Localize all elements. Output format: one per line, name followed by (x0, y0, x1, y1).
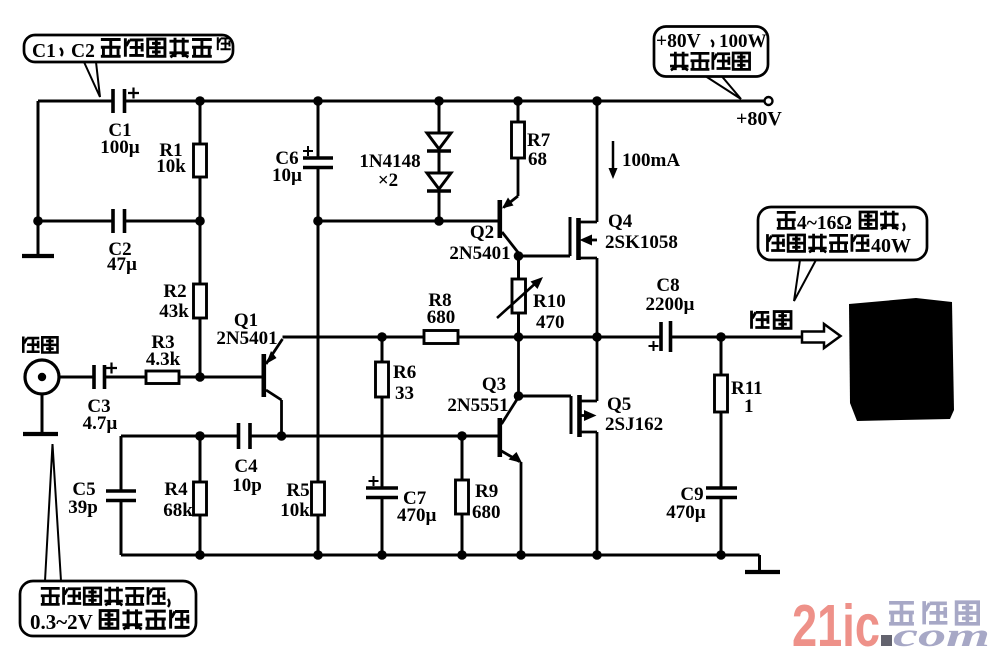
transistor Q2 2N5401 (PNP) (449, 158, 518, 264)
svg-text:68k: 68k (163, 500, 193, 521)
wire left supply branch (37, 101, 40, 221)
junction output node / R11 (716, 332, 726, 342)
ground (supply filter, left) (22, 221, 54, 256)
svg-text:470µ: 470µ (666, 502, 706, 523)
svg-text:C4: C4 (234, 456, 258, 477)
resistor R8 680 (424, 290, 458, 344)
junction ground rail / Q5 drain (592, 550, 602, 560)
wire C2 row right (125, 220, 201, 223)
diodes D1 D2 1N4148 x2 (359, 101, 451, 221)
svg-text:100µ: 100µ (100, 137, 140, 158)
svg-text:R6: R6 (393, 362, 416, 383)
wire base node to Q1 base (200, 376, 262, 379)
resistor R7 68 (512, 101, 551, 170)
annotation 输出 (output) (752, 311, 791, 329)
transistor Q3 2N5551 (NPN) (447, 337, 522, 555)
junction output rail / Q4 source (592, 332, 602, 342)
callout pointer (speaker note) (794, 260, 816, 301)
wire C8 to output node / arrow (671, 336, 803, 339)
resistor R9 680 (456, 436, 501, 555)
current annotation 100mA (609, 141, 681, 179)
capacitor C9 470µ (666, 484, 737, 555)
svg-text:0.3~2V: 0.3~2V (30, 610, 93, 634)
svg-text:10p: 10p (232, 475, 262, 496)
MOSFET Q4 2SK1058 (N-channel) (570, 101, 678, 337)
junction C6 / bias rail (313, 216, 323, 226)
callout pointer (C1 C2 note) (84, 62, 100, 97)
junction Q1 collector / mid rail (277, 431, 287, 441)
svg-text:×2: ×2 (378, 170, 398, 191)
svg-text:33: 33 (395, 383, 414, 404)
svg-text:+80V: +80V (736, 108, 782, 130)
svg-text:470µ: 470µ (397, 505, 437, 526)
callout note: +80V 100W power supply (654, 27, 768, 77)
svg-text:C1: C1 (32, 41, 56, 62)
resistor R6 33 (376, 337, 417, 436)
wire mid rail middle segment (C4 to Q3 base) (250, 435, 498, 438)
svg-text:10µ: 10µ (272, 165, 302, 186)
speaker (black box) (849, 298, 954, 421)
junction bias rail / diodes (434, 216, 444, 226)
capacitor C7 470µ (366, 436, 437, 555)
svg-text:C2: C2 (71, 41, 95, 62)
transistor Q1 2N5401 (PNP) (216, 310, 282, 436)
junction top rail / R1 (195, 96, 205, 106)
capacitor C5 39p (68, 479, 136, 518)
svg-text:4.3k: 4.3k (146, 349, 181, 370)
junction ground rail / R9 (457, 550, 467, 560)
svg-text:4~16Ω: 4~16Ω (797, 213, 852, 234)
callout note: input signal peak 0.3~2V adjustable (20, 581, 196, 636)
capacitor C4 10p (232, 423, 262, 496)
capacitor C2 47µ (107, 209, 137, 275)
svg-text:2N5551: 2N5551 (447, 395, 508, 416)
junction R1/R2/C2 (195, 216, 205, 226)
resistor R3 4.3k (146, 332, 181, 384)
junction Q2 collector / R10 / Q4 gate (514, 251, 524, 261)
wire Q1 emitter rail (283, 336, 425, 339)
wire ground rail (121, 554, 760, 557)
capacitor C6 10µ (272, 101, 333, 221)
ground (output, right) (745, 555, 780, 572)
logo 21ic.com 电子网 (792, 593, 990, 649)
svg-text:2SJ162: 2SJ162 (605, 414, 663, 435)
wire output rail (458, 336, 661, 339)
svg-text:100W: 100W (719, 31, 767, 52)
svg-text:+80V: +80V (656, 31, 701, 52)
svg-text:39p: 39p (68, 497, 98, 518)
wire C3 to R3 (105, 376, 147, 379)
resistor R2 43k (159, 221, 206, 377)
svg-text:2N5401: 2N5401 (216, 328, 277, 349)
svg-text:43k: 43k (159, 301, 189, 322)
wire Q4 gate (519, 255, 571, 258)
svg-text:Q3: Q3 (482, 374, 506, 395)
svg-text:Q2: Q2 (470, 222, 494, 243)
wire top supply rail left segment (38, 100, 113, 103)
svg-text:R9: R9 (475, 481, 498, 502)
junction ground rail / C7 (377, 550, 387, 560)
svg-text:21ic: 21ic (792, 593, 880, 649)
svg-text:R2: R2 (163, 281, 186, 302)
resistor R5 10k (280, 221, 324, 555)
wire R3 to Q1 base node (179, 376, 200, 379)
svg-text:1N4148: 1N4148 (359, 151, 420, 172)
svg-text:Q5: Q5 (607, 394, 631, 415)
svg-text:470: 470 (536, 312, 565, 333)
wire mid rail left segment (C5 corner to C4) (121, 435, 239, 438)
svg-text:C8: C8 (656, 275, 679, 296)
junction output rail / R10 / Q3 collector line (514, 332, 524, 342)
svg-text:680: 680 (472, 502, 501, 523)
resistor R10 470 (variable) (497, 256, 566, 337)
junction ground rail / C9 (716, 550, 726, 560)
svg-text:40W: 40W (871, 235, 911, 257)
junction mid rail / R4 column (195, 431, 205, 441)
svg-text:Q4: Q4 (608, 211, 633, 232)
svg-text:47µ: 47µ (107, 254, 137, 275)
callout note: connect 4~16 ohm speaker, power about 40W (758, 207, 927, 260)
junction ground rail / R5 (313, 550, 323, 560)
wire C5 to ground rail (120, 501, 123, 556)
callout pointer (input note) (45, 444, 61, 581)
junction top rail / diodes (434, 96, 444, 106)
wire C5 branch down (120, 436, 123, 491)
ground (input) (23, 394, 58, 434)
MOSFET Q5 2SJ162 (P-channel) (571, 337, 663, 555)
input terminal (输入) (23, 337, 59, 394)
callout pointer (+80V note) (706, 77, 741, 100)
svg-text:4.7µ: 4.7µ (83, 413, 118, 434)
junction top rail / Q4 drain (592, 96, 602, 106)
wire C2 row left (38, 220, 113, 223)
wire bias rail to Q2 base (318, 220, 498, 223)
svg-text:2200µ: 2200µ (646, 294, 695, 315)
svg-text:10k: 10k (280, 500, 310, 521)
svg-text:R7: R7 (527, 130, 551, 151)
resistor R4 68k (163, 436, 206, 555)
junction Q3 collector / Q5 gate (514, 391, 524, 401)
junction top rail / C6 (313, 96, 323, 106)
svg-text:680: 680 (427, 307, 456, 328)
capacitor C8 2200µ (646, 275, 695, 352)
wire input to C3 (59, 376, 94, 379)
wire top supply rail main segment (125, 100, 766, 103)
svg-text:1: 1 (744, 396, 754, 417)
terminal +80V (736, 97, 782, 130)
junction Q1 base node (195, 372, 205, 382)
capacitor C1 100µ (series in supply rail) (100, 88, 140, 159)
svg-text:2N5401: 2N5401 (449, 243, 510, 264)
svg-text:R5: R5 (286, 480, 309, 501)
resistor R1 10k (156, 101, 206, 221)
junction emitter rail / R6 (377, 332, 387, 342)
wire Q5 gate (519, 395, 572, 398)
junction left branch / C2 row (33, 216, 43, 226)
resistor R11 1 (715, 337, 763, 488)
output arrow (802, 324, 841, 348)
capacitor C3 4.7µ (83, 363, 118, 435)
svg-text:R4: R4 (164, 479, 188, 500)
svg-text:10k: 10k (156, 156, 186, 177)
svg-text:com: com (893, 618, 990, 649)
svg-text:R10: R10 (533, 291, 566, 312)
svg-text:2SK1058: 2SK1058 (605, 232, 678, 253)
junction ground rail / R4 (195, 550, 205, 560)
svg-text:100mA: 100mA (622, 150, 680, 171)
junction mid rail / R9 / Q3 base (457, 431, 467, 441)
callout note: C1 C2 are filter capacitors (24, 35, 233, 62)
svg-text:68: 68 (528, 149, 547, 170)
junction top rail / R7 (513, 96, 523, 106)
junction ground rail / Q3 emitter (516, 550, 526, 560)
